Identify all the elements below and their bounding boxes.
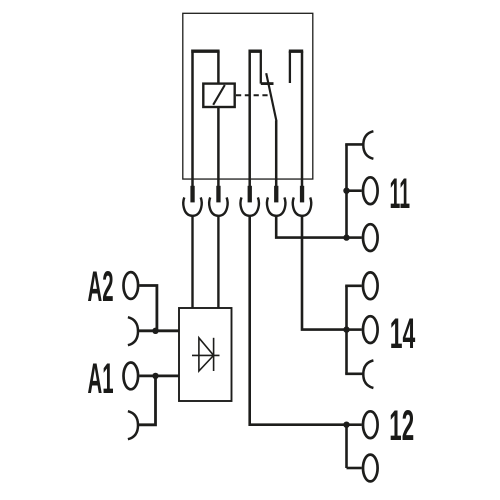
terminal circle below 11: [363, 224, 378, 251]
terminal pin 5: [300, 186, 304, 203]
terminal circle above 14: [363, 272, 378, 299]
wire pin5 to node 14: [302, 216, 347, 330]
wire stub to arc above 11: [345, 143, 363, 146]
wire pin2 to input box: [217, 216, 219, 308]
wire pin1 to input box: [191, 216, 193, 308]
wire NO contact stub: [289, 51, 291, 83]
terminal circle below 12: [363, 455, 378, 482]
terminal circle A1: [124, 363, 139, 390]
label 11: [390, 170, 411, 218]
diode V1 cathode bar: [213, 338, 215, 371]
terminal socket 5: [293, 197, 311, 215]
terminal pin 1: [190, 186, 194, 203]
junction dot below 11: [343, 234, 349, 240]
wire stub to circle above 14: [345, 284, 362, 287]
wire A1 circle into input box: [139, 374, 179, 377]
terminal pin 3: [248, 186, 252, 203]
wire coil bottom lead to pin 2: [217, 107, 220, 186]
svg-text:11: 11: [390, 170, 411, 218]
wire stub to arc below 14: [345, 372, 363, 375]
terminal pin 4: [274, 186, 278, 203]
label 12: [389, 402, 414, 450]
junction dot at 14: [343, 326, 349, 332]
terminal arc below 14: [363, 360, 373, 388]
wire A1 junction down to arc row: [139, 376, 156, 425]
terminal socket 1: [183, 197, 201, 215]
wire coil top lead: [217, 51, 220, 83]
wire stub to circle below 12: [347, 467, 362, 470]
svg-text:A2: A2: [88, 263, 114, 311]
relay housing box K1: [183, 13, 313, 179]
wire A2 circle to junction: [139, 286, 157, 331]
terminal arc below A2: [128, 317, 138, 345]
wire common contact top loop: [249, 50, 262, 53]
relay coil K1: [203, 84, 234, 107]
bus wire group 14: [345, 286, 348, 374]
diode V1 anode/cathode line: [192, 354, 220, 356]
terminal circle A2: [124, 272, 139, 299]
terminal socket 3: [240, 197, 258, 215]
contact blade S1: [266, 73, 276, 121]
wire coil top loop horizontal: [191, 50, 219, 53]
wire stub to circle below 11: [347, 236, 362, 239]
terminal socket 4: [267, 197, 285, 215]
label 14: [390, 310, 416, 358]
NC contact bar: [261, 82, 274, 85]
wire pin4 to node below 11: [276, 216, 346, 238]
junction dot A1 group: [152, 373, 158, 379]
terminal pin 2: [216, 186, 220, 203]
input circuit box U1: [179, 308, 232, 401]
wire A2 arc row into input box: [139, 329, 179, 332]
label A1: [88, 355, 114, 403]
junction dot at 12: [343, 422, 349, 428]
terminal arc below A1: [128, 411, 138, 439]
wire stub to circle 12: [347, 423, 362, 426]
wire T5 vertical (NO riser to pin 5): [301, 51, 304, 186]
dashed actuator link coil to contact: [236, 94, 271, 96]
label A2: [88, 263, 114, 311]
svg-text:A1: A1: [88, 355, 114, 403]
wire pin3 down to node 12: [250, 216, 347, 425]
terminal circle 11: [363, 177, 378, 204]
svg-text:14: 14: [390, 310, 416, 358]
svg-text:12: 12: [389, 402, 414, 450]
wire T3 vertical (common contact riser): [248, 50, 251, 187]
bus wire group 12: [345, 425, 348, 468]
wire fixed contact stub: [260, 51, 262, 83]
junction dot at 11: [343, 188, 349, 194]
diode V1 triangle: [199, 338, 214, 371]
terminal arc above 11: [363, 131, 373, 159]
wire blade pivot to pin 4: [275, 121, 278, 187]
wire stub to circle 11: [347, 189, 362, 192]
terminal circle 14: [363, 316, 378, 343]
bus wire group 11: [345, 144, 348, 237]
junction dot A2 group: [152, 328, 158, 334]
wire T1 vertical (pin 1 riser): [191, 50, 194, 187]
wire NO contact top loop: [289, 50, 303, 53]
wire stub to circle 14: [347, 328, 362, 331]
terminal circle 12: [363, 411, 378, 438]
terminal socket 2: [209, 197, 227, 215]
